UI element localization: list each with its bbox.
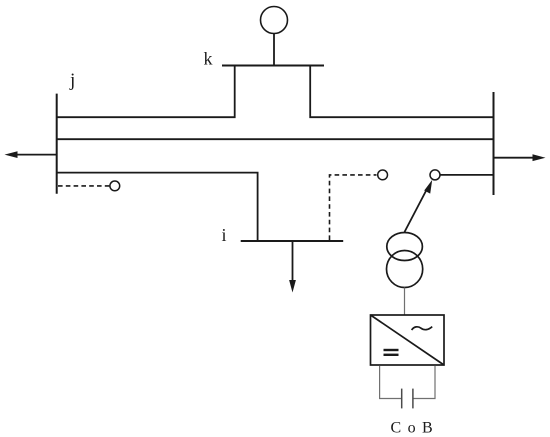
- capacitor C: [402, 389, 413, 409]
- terminal circle on bus j tap: [110, 181, 120, 191]
- right load arrow: [494, 154, 546, 161]
- left load arrow: [5, 151, 57, 158]
- svg-text:j: j: [69, 70, 75, 91]
- svg-text:k: k: [204, 49, 213, 69]
- wire transformer-converter: [404, 288, 406, 316]
- wire j-right bus: [57, 138, 494, 140]
- dashed tap from bus i: [330, 175, 377, 240]
- bus i: [241, 240, 344, 242]
- wire j-k: [57, 66, 235, 118]
- svg-text:i: i: [222, 225, 227, 245]
- generator G: [261, 7, 288, 66]
- dashed tap from bus j: [58, 185, 110, 187]
- wire k-right bus: [310, 66, 493, 118]
- terminal circle on bus i tap: [378, 170, 388, 180]
- wire j-i: [57, 173, 258, 241]
- bus j: [56, 94, 58, 194]
- switch circle at right bus: [430, 170, 440, 180]
- bus k: [222, 65, 324, 67]
- svg-text:C o B: C o B: [391, 420, 434, 437]
- wire converter-capacitor left: [380, 366, 401, 399]
- switch arm arrow from transformer: [405, 180, 433, 232]
- transformer T1: [387, 233, 423, 288]
- converter U1 (AC/DC): [371, 315, 445, 365]
- right bus: [493, 92, 495, 195]
- wire converter-capacitor right: [413, 366, 435, 399]
- load arrow at bus i: [289, 241, 296, 293]
- wire switch-right bus: [440, 174, 494, 176]
